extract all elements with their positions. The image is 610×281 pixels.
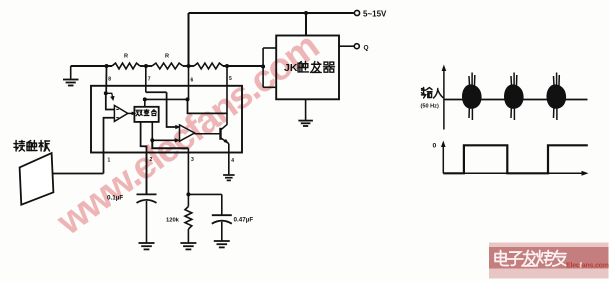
wire JK Q output <box>339 45 354 47</box>
node comparator feed <box>150 138 154 142</box>
op-amp A1 <box>114 105 127 121</box>
wire JK left input bracket <box>263 47 276 49</box>
resistor R3 <box>194 63 223 69</box>
wire internal bus y99.4 <box>145 98 188 100</box>
ground G4 <box>180 242 196 244</box>
svg-text:2: 2 <box>150 157 153 163</box>
JK flip-flop U2 <box>276 36 339 100</box>
svg-text:0.1µF: 0.1µF <box>107 195 123 202</box>
watermark www.elecfans.com diagonal <box>49 26 326 244</box>
node pin5 rail <box>225 64 229 68</box>
wire pin5 to collector <box>226 66 228 125</box>
svg-text:Elecfans.com: Elecfans.com <box>566 262 609 269</box>
noise burst 1 <box>462 84 482 108</box>
transistor Q1 <box>219 128 221 140</box>
wire bistable right output <box>151 122 153 140</box>
bistable box (shuangwentai) <box>134 107 158 122</box>
elecfans logo block <box>489 243 609 279</box>
svg-text:R: R <box>165 54 169 60</box>
resistor R1 <box>112 63 140 69</box>
ground G5 <box>214 240 230 242</box>
terminal 5~15V <box>354 10 359 15</box>
wire pin6 into box <box>188 66 190 99</box>
wire JK ground <box>305 99 307 120</box>
node pin3 bottom junction <box>186 192 190 196</box>
svg-text:0: 0 <box>433 143 437 150</box>
svg-text:1: 1 <box>108 158 111 164</box>
wire pin8 into box <box>105 66 107 93</box>
wire bus to collector rail jog <box>188 99 228 113</box>
waveform output square wave <box>443 145 588 173</box>
wire junction to C2 <box>188 193 221 195</box>
node bus right <box>186 97 190 101</box>
capacitor C2 0.47uF <box>212 214 232 216</box>
svg-text:JK: JK <box>284 62 298 74</box>
svg-text:5: 5 <box>229 76 232 82</box>
resistor R4 120k <box>185 207 192 230</box>
touch plate label jiechuban <box>14 141 25 152</box>
label input shuru <box>422 88 433 99</box>
wire JK box top to rail <box>305 13 307 36</box>
wire to comparator bottom input <box>152 139 176 141</box>
ground G1 left rail <box>70 66 72 79</box>
ground G3 <box>139 242 155 244</box>
svg-text:6: 6 <box>191 78 194 84</box>
wire comparator output to base <box>194 132 196 135</box>
noise burst 2 <box>504 84 524 108</box>
wire op-amp bottom input to pin1 <box>104 118 115 174</box>
svg-text:7: 7 <box>148 77 151 83</box>
node pin8 rail <box>105 64 109 68</box>
svg-text:5~15V: 5~15V <box>363 10 387 19</box>
logo text dianzifashaoyou <box>495 251 508 266</box>
node JK input rail <box>261 65 265 69</box>
wire emitter to pin4 ground <box>228 144 230 175</box>
resistor R2 <box>152 63 183 69</box>
waveform input axis <box>443 68 445 130</box>
input arrow annotation <box>106 93 113 97</box>
wire pin3 down <box>187 148 189 206</box>
wire pin7 staircase <box>145 66 147 92</box>
wire op-amp output to bistable <box>128 112 135 114</box>
node pin7 rail <box>144 64 148 68</box>
wire comparator top input drop <box>167 92 178 127</box>
svg-text:Q: Q <box>364 45 369 52</box>
node pin8 internal <box>104 91 108 95</box>
ground G2 pin4 <box>223 174 235 176</box>
node pin6 rail <box>187 64 191 68</box>
svg-text:(50 Hz): (50 Hz) <box>421 104 439 110</box>
svg-text:R: R <box>124 54 128 60</box>
waveform input signal line <box>444 99 588 101</box>
touch plate <box>20 153 54 205</box>
wire bus to bistable box <box>144 99 146 106</box>
wire node to pin3 <box>152 140 188 148</box>
wire top rail drop to pin6 junction <box>188 13 190 66</box>
ground G6 <box>298 120 313 122</box>
noise burst 3 <box>546 84 566 108</box>
wire pin8 to op-amp top input <box>106 93 115 109</box>
wire bistable left output to pin2 <box>141 122 147 194</box>
capacitor C1 0.1uF <box>146 153 148 195</box>
wire touch plate to pin1 <box>53 173 104 175</box>
terminal Q <box>354 44 359 49</box>
power rail top 5~15V <box>189 12 354 14</box>
svg-text:3: 3 <box>191 157 194 163</box>
node bus left <box>143 97 147 101</box>
svg-text:4: 4 <box>231 158 234 164</box>
comparator A2 <box>180 125 195 141</box>
waveform output baseline <box>443 172 584 174</box>
waveform output axis <box>442 144 444 174</box>
svg-text:8: 8 <box>108 77 111 83</box>
svg-text:120k: 120k <box>166 218 180 224</box>
svg-text:0.47µF: 0.47µF <box>234 217 254 224</box>
node junction top rail / JK supply <box>304 11 308 15</box>
IC U1 box (touch IC) <box>91 86 242 153</box>
wire rail segments <box>71 65 112 67</box>
